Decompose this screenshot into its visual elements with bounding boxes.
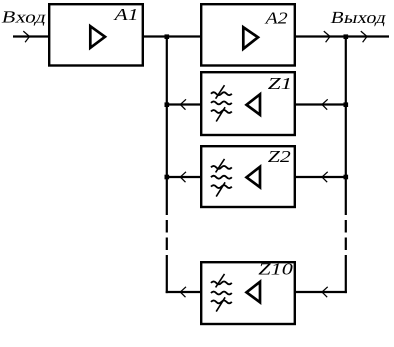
wire output	[296, 35, 389, 37]
filter waves Z10	[211, 281, 232, 284]
node junction Z2 right	[344, 175, 349, 180]
filter waves Z2	[211, 166, 232, 169]
filter slash bottom Z1	[216, 107, 225, 121]
wire Z10 right branch	[296, 291, 347, 293]
arrow Z1 right branch left-pointing	[322, 99, 328, 109]
arrow Z1 left branch left-pointing	[180, 99, 186, 109]
filter waves Z1	[211, 92, 232, 95]
filter block Z10	[201, 262, 295, 324]
wire Z10 left branch	[166, 291, 200, 293]
amplifier block A1	[49, 4, 143, 65]
wire input	[13, 35, 48, 37]
svg-text:Z10: Z10	[258, 260, 293, 279]
svg-text:Z2: Z2	[268, 147, 292, 166]
node junction Z1 left	[165, 102, 170, 107]
arrow output 2 right-pointing	[361, 31, 367, 42]
filter block Z2	[201, 146, 295, 207]
triangle symbol A2	[243, 27, 258, 49]
wire Z2 left branch	[167, 176, 200, 178]
wire right bus solid upper	[345, 37, 347, 216]
filter slash top Z2	[216, 159, 225, 173]
node junction A1 output	[165, 34, 170, 39]
triangle symbol Z10 left-pointing	[247, 282, 261, 303]
filter block Z1	[201, 72, 295, 135]
wire Z1 right branch	[296, 103, 346, 105]
wire left bus dashed	[166, 220, 168, 233]
svg-text:Выход: Выход	[329, 8, 388, 27]
arrow output 1 right-pointing	[324, 31, 330, 42]
arrow Z2 left branch left-pointing	[180, 172, 186, 182]
triangle symbol Z2 left-pointing	[247, 167, 261, 188]
svg-text:Z1: Z1	[268, 74, 293, 93]
filter slash top Z1	[216, 85, 225, 99]
triangle symbol Z1 left-pointing	[247, 94, 261, 115]
svg-text:Вход: Вход	[0, 8, 48, 27]
filter slash bottom Z10	[216, 297, 225, 311]
svg-text:A2: A2	[265, 9, 289, 28]
triangle symbol A1	[90, 26, 105, 48]
node junction Z2 left	[165, 175, 170, 180]
wire right bus solid lower	[345, 255, 347, 293]
filter slash top Z10	[216, 274, 225, 288]
wire Z1 left branch	[167, 103, 200, 105]
arrow Z10 right branch left-pointing	[322, 287, 328, 297]
node junction output	[344, 34, 349, 39]
wire right bus dashed	[345, 220, 347, 233]
wire A1 to A2	[144, 35, 200, 37]
svg-text:A1: A1	[113, 5, 138, 24]
wire left bus solid lower	[166, 255, 168, 293]
filter slash bottom Z2	[216, 182, 225, 196]
node junction Z1 right	[344, 102, 349, 107]
amplifier block A2	[201, 4, 295, 65]
arrow Z2 right branch left-pointing	[322, 172, 328, 182]
arrow Z10 left branch left-pointing	[180, 287, 186, 297]
wire Z2 right branch	[296, 176, 346, 178]
arrow input right-pointing	[23, 31, 29, 42]
wire left bus solid upper	[166, 37, 168, 216]
